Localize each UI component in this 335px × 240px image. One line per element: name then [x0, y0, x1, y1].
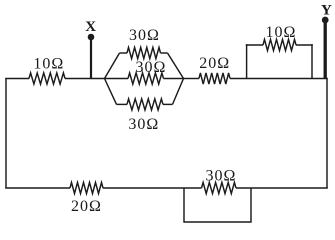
resistor R=30ohm bottom-right	[202, 182, 237, 193]
wire diagonal bottom-right to right node	[173, 79, 184, 105]
node left diagonal down	[105, 79, 117, 105]
terminal X stem	[90, 39, 92, 79]
node left of parallel group : diagonal up	[105, 53, 120, 79]
resistor R=10ohm top-left	[29, 73, 65, 84]
svg-text:Y: Y	[321, 3, 332, 19]
wire top branch left stub	[120, 52, 128, 54]
terminal X dot	[88, 34, 95, 41]
terminal Y stem thick	[324, 20, 327, 79]
wire 20ohm to right edge	[230, 78, 328, 80]
wire middle branch left stub	[105, 78, 129, 80]
svg-text:30Ω: 30Ω	[128, 116, 159, 133]
svg-text:30Ω: 30Ω	[206, 168, 237, 185]
wire box top left stub	[246, 44, 263, 46]
svg-text:X: X	[85, 19, 96, 35]
wire from 10ohm to left node	[65, 78, 105, 80]
svg-text:10Ω: 10Ω	[33, 56, 64, 73]
wire box left vertical	[246, 44, 248, 78]
resistor R=30ohm top branch	[127, 47, 161, 58]
wire top-left segment	[5, 78, 29, 80]
svg-text:30Ω: 30Ω	[136, 59, 167, 76]
wire box right vertical	[311, 44, 313, 78]
wire top branch right stub	[161, 52, 168, 54]
svg-text:20Ω: 20Ω	[71, 198, 102, 215]
wire bottom middle segment	[103, 187, 202, 189]
wire bottom right segment	[236, 187, 328, 189]
wire bottom branch left stub	[117, 103, 128, 105]
wire right edge	[326, 79, 328, 189]
resistor R=10ohm in box	[263, 39, 296, 50]
wire diagonal top-right to right node	[168, 53, 184, 79]
wire middle branch right stub	[164, 78, 184, 80]
svg-text:10Ω: 10Ω	[266, 24, 297, 41]
resistor R=30ohm middle branch	[128, 73, 164, 84]
svg-text:20Ω: 20Ω	[199, 55, 230, 72]
wire right node to 20ohm	[184, 78, 200, 80]
wire bottom left segment	[5, 187, 70, 189]
wire shunt box below 30ohm	[184, 188, 251, 222]
resistor R=30ohm bottom branch	[127, 99, 163, 110]
wire left edge	[5, 79, 7, 189]
wire box top right stub	[296, 44, 313, 46]
resistor R=20ohm top	[199, 73, 230, 84]
terminal Y dot	[322, 17, 329, 24]
wire bottom branch right stub	[163, 103, 173, 105]
svg-text:30Ω: 30Ω	[129, 27, 160, 44]
resistor R=20ohm bottom	[70, 182, 103, 193]
